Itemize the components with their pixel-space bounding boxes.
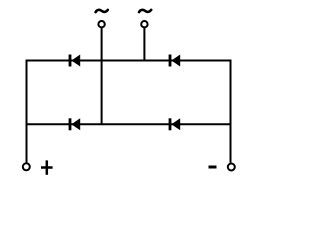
diode D3 (bottom-left, cathode left) <box>69 118 81 130</box>
diode D4 (bottom-right, cathode left) <box>169 118 181 130</box>
diode D2 (top-right, cathode left) <box>169 55 181 67</box>
wire left vertical to + terminal <box>26 60 28 163</box>
terminal - output circle <box>228 164 235 171</box>
diode D1 (top-left, cathode left) <box>69 55 81 67</box>
label ~ for AC1 <box>96 10 108 12</box>
terminal AC2 circle <box>141 21 147 27</box>
wire AC1 vertical (crosses top rail, joins bottom rail) <box>101 27 103 124</box>
label - <box>209 166 217 169</box>
label ~ for AC2 <box>139 10 151 12</box>
wire top rail <box>26 60 232 62</box>
wire AC2 vertical (joins top rail) <box>143 27 145 60</box>
terminal + output circle <box>23 163 30 170</box>
wire bottom rail <box>26 123 232 125</box>
wire right vertical to - terminal <box>230 60 232 163</box>
label + <box>41 160 53 174</box>
terminal AC1 circle <box>98 21 104 27</box>
